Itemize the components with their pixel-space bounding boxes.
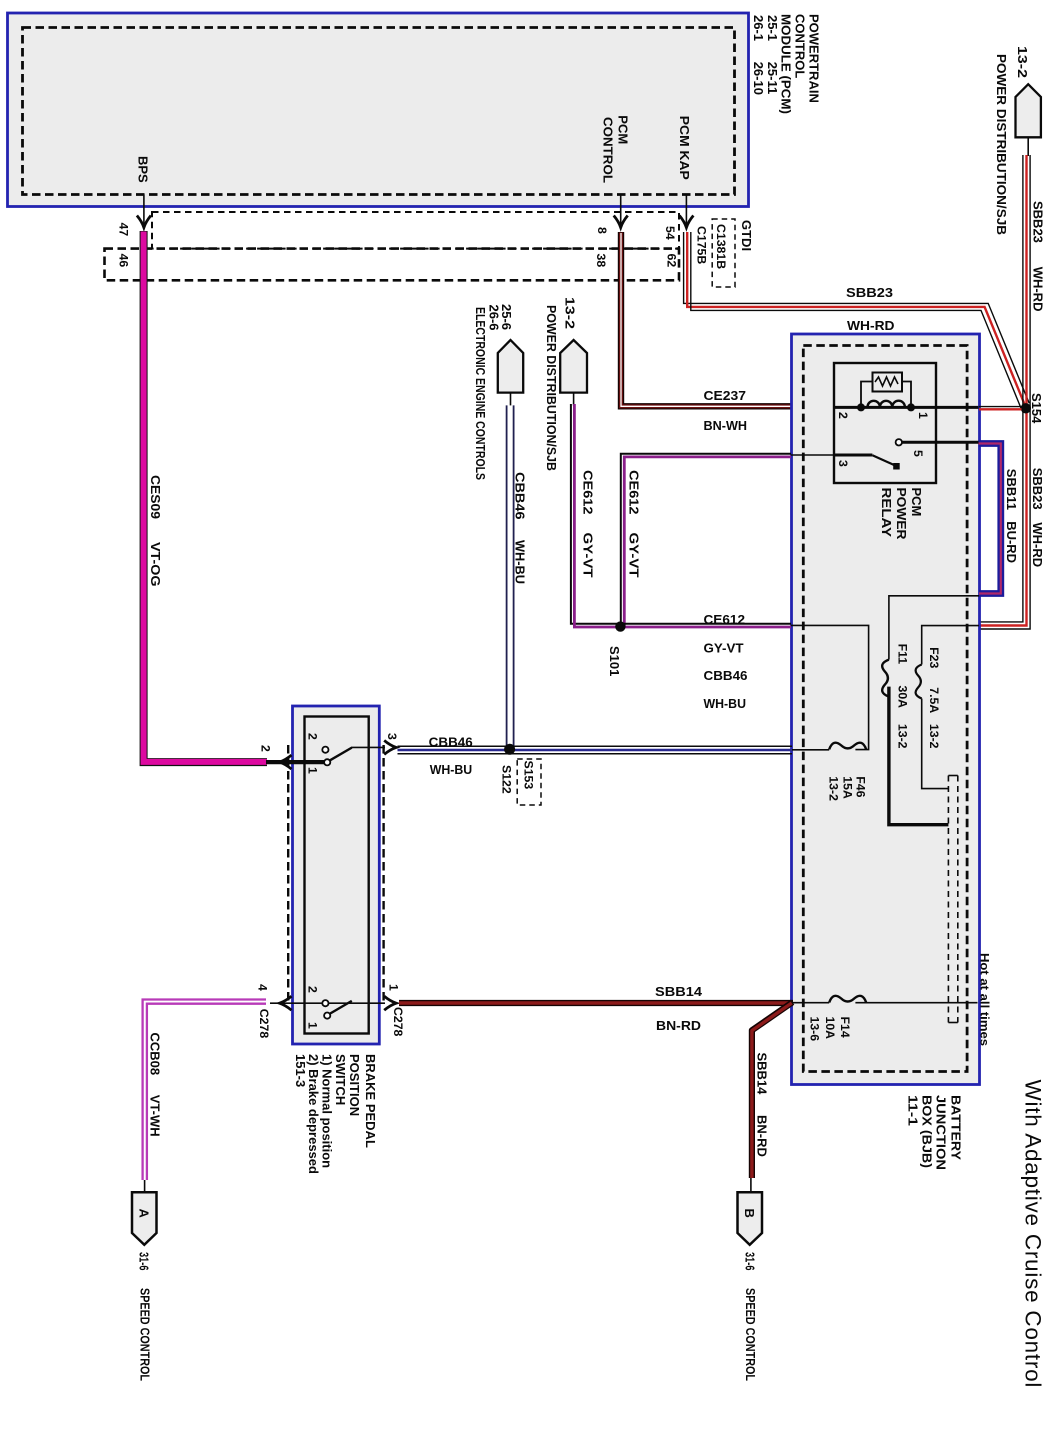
svg-text:SBB23: SBB23 <box>1030 201 1045 243</box>
stub from EEC pentagon <box>510 393 512 406</box>
svg-text:CE612: CE612 <box>626 470 641 515</box>
bus bar (dashed) inside BJB <box>948 776 957 1023</box>
svg-text:8: 8 <box>595 227 609 234</box>
svg-text:F23: F23 <box>927 647 941 668</box>
svg-text:7.5A: 7.5A <box>927 687 941 713</box>
svg-text:POWER DISTRIBUTION/SJB: POWER DISTRIBUTION/SJB <box>994 54 1009 235</box>
relay pin3 wire inside BJB <box>791 454 834 456</box>
svg-text:F46: F46 <box>853 776 867 797</box>
wire CE612 GY-VT from S101 to BJB <box>616 623 791 625</box>
connector 13-2 POWER DISTRIBUTION/SJB (left pentagon) <box>560 340 587 393</box>
svg-text:GTDI: GTDI <box>739 220 754 251</box>
svg-text:JUNCTION: JUNCTION <box>933 1095 948 1170</box>
label BATTERY JUNCTION BOX (BJB) 11-1 <box>905 1095 963 1170</box>
relay junction dot pin2 side <box>857 403 865 411</box>
svg-text:WH-BU: WH-BU <box>430 762 473 777</box>
fuse F23 element <box>916 665 922 699</box>
relay coil arcs <box>868 401 905 407</box>
svg-text:BRAKE PEDAL: BRAKE PEDAL <box>363 1054 378 1148</box>
svg-text:46: 46 <box>116 254 130 268</box>
svg-text:WH-BU: WH-BU <box>512 540 527 584</box>
battery junction box (BJB) <box>792 334 980 1085</box>
svg-text:CONTROL: CONTROL <box>600 117 615 183</box>
svg-text:RELAY: RELAY <box>879 488 894 538</box>
svg-text:CBB46: CBB46 <box>429 734 473 749</box>
label PCM POWER RELAY <box>879 488 924 541</box>
svg-text:C278: C278 <box>391 1007 405 1037</box>
svg-text:With Adaptive Cruise Control: With Adaptive Cruise Control <box>1021 1080 1046 1389</box>
svg-text:38: 38 <box>594 254 608 268</box>
resistor zigzag <box>875 377 898 386</box>
brake pedal position switch box <box>293 706 380 1044</box>
svg-text:WH-RD: WH-RD <box>1030 522 1045 567</box>
svg-text:13-2: 13-2 <box>896 724 910 749</box>
CE612 line inside BJB to fuse F46 <box>791 625 869 749</box>
svg-text:S153: S153 <box>522 761 536 790</box>
svg-text:11-1: 11-1 <box>905 1095 920 1126</box>
svg-text:25-1: 25-1 <box>765 15 780 41</box>
powertrain control module (PCM) box <box>8 13 749 207</box>
connector strip row B (pins 46/38/62) <box>105 249 680 281</box>
svg-text:SBB23: SBB23 <box>1030 468 1045 510</box>
svg-text:BATTERY: BATTERY <box>948 1095 963 1160</box>
svg-text:13-2: 13-2 <box>826 776 840 801</box>
svg-text:4: 4 <box>256 984 270 991</box>
pin label PCM CONTROL <box>600 115 630 183</box>
svg-text:S101: S101 <box>607 646 622 676</box>
relay pin5 wire to BJB edge <box>902 441 979 444</box>
svg-text:SBB23: SBB23 <box>846 285 893 300</box>
BPS pin stub wire <box>143 195 145 227</box>
svg-text:GY-VT: GY-VT <box>626 533 641 578</box>
wire CBB46 WH-BU vertical double line <box>506 405 508 746</box>
label F11 30A 13-2 <box>896 644 910 749</box>
wire CBB46 WH-BU horizontal triple line to BJB <box>398 746 793 753</box>
top switch pin3 wire <box>351 746 385 748</box>
svg-text:1: 1 <box>387 984 401 991</box>
relay suppression resistor box <box>873 373 903 392</box>
svg-text:CE237: CE237 <box>704 388 747 403</box>
svg-text:GY-VT: GY-VT <box>580 533 595 578</box>
svg-text:CONTROL: CONTROL <box>793 14 808 78</box>
svg-text:CES09: CES09 <box>148 475 163 519</box>
svg-text:PCM KAP: PCM KAP <box>677 116 692 180</box>
top switch right connector arrow <box>384 740 396 754</box>
svg-text:C175B: C175B <box>694 226 708 264</box>
wire SBB11 BU-RD loop (blue with red core) <box>979 444 1001 594</box>
svg-text:B: B <box>742 1209 757 1218</box>
stub from left pentagon <box>573 393 575 406</box>
svg-text:WH-RD: WH-RD <box>1030 267 1045 312</box>
svg-text:POWER DISTRIBUTION/SJB: POWER DISTRIBUTION/SJB <box>544 305 559 471</box>
svg-text:MODULE (PCM): MODULE (PCM) <box>779 14 794 114</box>
GTDI connector dashed box C1381B <box>712 219 735 287</box>
resistor connection stubs <box>861 382 911 408</box>
relay junction dot pin1 side <box>907 403 915 411</box>
bottom switch contact 1 circle <box>324 1013 330 1019</box>
switch connector dashed line right <box>382 745 384 1005</box>
PCM KAP pin stub wire <box>685 195 687 227</box>
svg-text:13-2: 13-2 <box>1015 46 1030 78</box>
relay coil main line pin2 to pin1 to S154 <box>834 406 979 409</box>
svg-text:C278: C278 <box>257 1009 271 1039</box>
SBB11 return line inside BJB to fuse F11 <box>889 596 979 660</box>
svg-text:Hot at all times: Hot at all times <box>978 953 992 1046</box>
splice S154 <box>1021 403 1031 413</box>
svg-text:26-1: 26-1 <box>751 15 766 41</box>
wire CES09 VT-OG (magenta) from BPS pin to brake switch <box>144 231 267 762</box>
fuse F23 lower feed to bus <box>922 699 949 789</box>
svg-text:CBB46: CBB46 <box>704 668 748 683</box>
svg-text:2: 2 <box>306 733 320 740</box>
bottom switch right connector arrow <box>384 996 396 1010</box>
svg-text:13-6: 13-6 <box>808 1017 822 1042</box>
svg-text:SBB11: SBB11 <box>1004 469 1019 510</box>
svg-text:25-11: 25-11 <box>765 62 780 95</box>
F14 line from BJB edge to fuse <box>792 1002 829 1004</box>
bottom switch: through wire <box>270 1002 385 1004</box>
svg-text:54: 54 <box>663 226 677 240</box>
stub to connector B <box>750 1178 752 1192</box>
fuse F11 element <box>882 660 889 697</box>
svg-text:151-3: 151-3 <box>293 1054 308 1087</box>
svg-text:POWER: POWER <box>894 488 909 541</box>
svg-text:A: A <box>137 1209 152 1219</box>
svg-text:F14: F14 <box>838 1017 852 1038</box>
connector B pentagon <box>738 1192 763 1245</box>
connector A pentagon <box>132 1192 157 1245</box>
splice S101 <box>615 621 625 631</box>
BPS pin connector arrow <box>137 216 151 228</box>
svg-text:31-6: 31-6 <box>743 1252 758 1271</box>
stub from top right pentagon <box>1027 138 1029 157</box>
wire CCB08 VT-WH (violet pair) to connector A <box>143 1000 266 1181</box>
svg-text:1: 1 <box>306 1022 320 1029</box>
svg-text:2: 2 <box>836 412 850 419</box>
svg-text:13-2: 13-2 <box>562 297 577 329</box>
svg-text:26-10: 26-10 <box>751 62 766 95</box>
svg-text:VT-OG: VT-OG <box>148 542 163 587</box>
label F14 10A 13-6 <box>808 1017 853 1042</box>
svg-text:15A: 15A <box>840 776 854 799</box>
svg-text:3: 3 <box>836 460 850 467</box>
svg-text:1: 1 <box>916 412 930 419</box>
wire SBB23 WH-RD from PCM KAP (black/red pair) to S154 <box>684 232 1030 403</box>
label BRAKE PEDAL POSITION SWITCH block <box>293 1054 378 1174</box>
relay pin3 wire inside box <box>834 454 872 457</box>
stub to connector A <box>144 1180 146 1192</box>
PCM CONTROL pin connector arrow <box>614 216 628 228</box>
svg-text:WH-BU: WH-BU <box>704 696 747 711</box>
connector strip row A (pins 47/8/54) <box>152 212 679 249</box>
svg-text:SBB14: SBB14 <box>655 984 703 999</box>
svg-text:BPS: BPS <box>136 156 151 183</box>
fuse F46 element <box>829 743 866 750</box>
top switch blade <box>330 748 352 761</box>
label F46 15A 13-2 <box>826 776 867 801</box>
svg-text:POWERTRAIN: POWERTRAIN <box>806 14 821 103</box>
svg-text:VT-WH: VT-WH <box>147 1095 162 1137</box>
wire S154 to relay pin 1 (red pair outside box) <box>979 406 1022 408</box>
bottom switch blade <box>330 1001 352 1014</box>
svg-text:S154: S154 <box>1029 393 1044 424</box>
svg-text:3: 3 <box>385 733 399 740</box>
PCM KAP pin connector arrow <box>679 216 693 228</box>
svg-text:2: 2 <box>306 986 320 993</box>
F14 line to bus and hot feed <box>855 1002 977 1004</box>
svg-text:CBB46: CBB46 <box>512 472 527 520</box>
top switch contact 1 circle <box>324 759 330 765</box>
relay blade tip square <box>893 463 900 470</box>
svg-text:BU-RD: BU-RD <box>1004 521 1019 563</box>
svg-text:CE612: CE612 <box>580 470 595 515</box>
fuse F46 line to BJB edge <box>792 749 829 751</box>
PCM title text <box>751 14 821 114</box>
SBB23 feed line inside BJB to fuse F23 <box>922 626 979 665</box>
svg-text:CCB08: CCB08 <box>147 1033 162 1076</box>
connector 13-2 POWER DISTRIBUTION/SJB (top right pentagon) <box>1016 84 1041 137</box>
wire CE237 BN-WH from PCM CONTROL to relay pin 2 <box>621 232 792 406</box>
wire CE612 GY-VT relay pin3 to S101 (black+purple pair) <box>621 454 791 624</box>
PCM power relay box <box>834 363 936 483</box>
switch connector dashed line left <box>287 745 289 1005</box>
svg-text:1: 1 <box>306 767 320 774</box>
splice S153/S122 dot <box>504 744 515 755</box>
relay contact circle pin 5 <box>896 439 902 445</box>
svg-text:2: 2 <box>259 745 273 752</box>
relay switch blade pin 3 <box>872 455 895 465</box>
dashed box around S153 <box>517 759 541 805</box>
bottom switch left connector arrow <box>280 996 292 1010</box>
svg-text:PCM: PCM <box>909 488 924 517</box>
wire SBB23 WH-RD vertical (pentagon to S154 to BJB feed) <box>979 155 1023 622</box>
svg-text:WH-RD: WH-RD <box>847 318 895 333</box>
svg-text:SPEED CONTROL: SPEED CONTROL <box>743 1288 758 1381</box>
svg-text:POSITION: POSITION <box>347 1054 362 1116</box>
label F23 7.5A 13-2 <box>927 647 941 749</box>
fuse F14 element <box>829 996 866 1003</box>
svg-text:SBB14: SBB14 <box>755 1053 770 1096</box>
svg-text:BN-WH: BN-WH <box>704 418 748 433</box>
svg-text:S122: S122 <box>500 765 514 794</box>
wire CE612 GY-VT pentagon to S101 (black+purple pair) <box>571 404 616 624</box>
svg-text:5: 5 <box>911 450 925 457</box>
svg-text:13-2: 13-2 <box>927 724 941 749</box>
top switch left connector arrow <box>280 755 292 769</box>
svg-text:31-6: 31-6 <box>137 1252 152 1271</box>
svg-text:BN-RD: BN-RD <box>755 1115 770 1157</box>
svg-text:GY-VT: GY-VT <box>704 641 744 656</box>
svg-text:47: 47 <box>116 223 130 237</box>
bottom switch contact 2 circle <box>322 1000 328 1006</box>
wire SBB14 BN-RD from switch to BJB and connector B <box>399 1000 793 1006</box>
svg-text:BOX (BJB): BOX (BJB) <box>919 1095 934 1168</box>
top switch: feed wire (black thick) <box>266 760 325 764</box>
svg-text:10A: 10A <box>823 1017 837 1040</box>
svg-text:C1381B: C1381B <box>714 224 728 269</box>
svg-text:CE612: CE612 <box>704 612 746 627</box>
fuse F11 lower feed (thick) to bus <box>889 687 949 825</box>
top switch contact 2 circle <box>322 747 328 753</box>
svg-text:BN-RD: BN-RD <box>656 1018 701 1033</box>
svg-text:30A: 30A <box>896 686 910 709</box>
PCM CONTROL pin stub wire <box>620 195 622 227</box>
svg-text:PCM: PCM <box>615 115 630 144</box>
svg-text:SPEED CONTROL: SPEED CONTROL <box>138 1288 153 1381</box>
connector 25-6/26-6 ELECTRONIC ENGINE CONTROLS pentagon <box>498 340 523 393</box>
svg-text:ELECTRONIC ENGINE CONTROLS: ELECTRONIC ENGINE CONTROLS <box>473 307 488 480</box>
svg-text:F11: F11 <box>896 644 910 665</box>
svg-text:62: 62 <box>664 254 678 268</box>
